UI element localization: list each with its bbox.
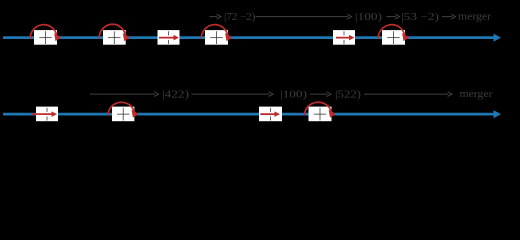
svg-text:|100): |100) [355, 12, 382, 23]
hop operator box TB6 [378, 25, 409, 45]
svg-text:|422): |422) [162, 89, 189, 100]
svg-text:merger: merger [458, 11, 492, 22]
top annotation arrow 4 [442, 14, 456, 19]
top annotation arrow 3 [387, 14, 400, 19]
bottom annotation arrow 2 (long) [192, 92, 274, 97]
top timeline arrowhead [494, 34, 502, 42]
svg-text:|53 −2): |53 −2) [401, 12, 439, 23]
bottom annotation arrow 4 (long) [364, 92, 452, 97]
shift operator box BB1 [32, 107, 59, 122]
hop operator box TB2 [99, 24, 130, 44]
hop operator box BB4 [305, 102, 336, 121]
shift operator box BB3 [259, 107, 282, 122]
svg-text:|100): |100) [280, 89, 307, 100]
shift operator box TB5 [333, 30, 355, 45]
bottom timeline wire [3, 113, 494, 116]
svg-text:merger: merger [460, 89, 494, 100]
svg-text:|72 −2): |72 −2) [224, 12, 256, 23]
hop operator box BB2 [108, 102, 139, 121]
top annotation arrow 2 (long) [256, 14, 352, 19]
bottom timeline arrowhead [494, 110, 502, 118]
bottom annotation arrow 3 [310, 92, 331, 97]
hop operator box TB1 [30, 25, 61, 45]
bottom annotation arrow 1 [90, 92, 159, 97]
shift operator box TB3 [158, 30, 180, 45]
svg-text:|522): |522) [335, 89, 361, 100]
top timeline wire [3, 36, 494, 39]
hop operator box TB4 [201, 25, 232, 45]
top annotation arrow 1 [210, 14, 222, 19]
